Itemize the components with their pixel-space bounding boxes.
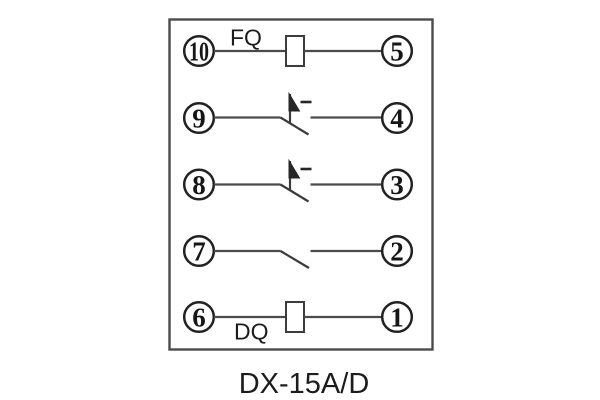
svg-text:3: 3: [390, 170, 404, 200]
wire terminal 7 to contact: [214, 250, 281, 252]
wire coil FQ to terminal 5: [304, 50, 382, 52]
terminal 7: [184, 236, 214, 266]
wire terminal 6 to coil DQ: [214, 316, 286, 318]
minus mark K2: [301, 168, 312, 171]
wire terminal 8 to contact: [214, 183, 281, 185]
svg-text:6: 6: [192, 303, 206, 333]
wire contact to terminal 4: [311, 116, 383, 118]
flag triangle K2: [289, 161, 300, 179]
contact blade K3: [281, 251, 310, 268]
wire contact to terminal 3: [311, 183, 383, 185]
wire terminal10 to coil FQ: [214, 50, 286, 52]
contact blade K1: [281, 118, 309, 135]
terminal 5: [382, 36, 412, 66]
svg-text:10: 10: [189, 37, 209, 67]
svg-text:9: 9: [192, 104, 206, 134]
enclosure box: [170, 20, 433, 350]
terminal 2: [382, 236, 412, 266]
wire contact to terminal 2: [311, 250, 383, 252]
contact blade K2: [281, 185, 309, 202]
flag stem K2: [289, 161, 291, 190]
svg-text:2: 2: [390, 237, 404, 267]
svg-text:1: 1: [390, 303, 404, 333]
svg-text:DQ: DQ: [234, 319, 269, 345]
terminal 10: [184, 36, 214, 66]
svg-text:DX-15A/D: DX-15A/D: [239, 368, 370, 400]
svg-text:FQ: FQ: [230, 25, 262, 51]
terminal 3: [382, 170, 412, 200]
wire terminal 9 to contact: [214, 116, 281, 118]
terminal 8: [184, 170, 214, 200]
coil FQ: [286, 36, 304, 66]
wire coil DQ to terminal 1: [304, 316, 382, 318]
terminal 4: [382, 103, 412, 133]
svg-text:4: 4: [390, 104, 404, 134]
flag stem K1: [289, 94, 291, 123]
coil DQ: [286, 302, 304, 332]
svg-text:8: 8: [192, 170, 206, 200]
flag triangle K1: [289, 94, 300, 112]
terminal 9: [184, 103, 214, 133]
svg-text:7: 7: [192, 237, 206, 267]
minus mark K1: [301, 101, 312, 104]
terminal 1: [382, 302, 412, 332]
terminal 6: [184, 302, 214, 332]
svg-text:5: 5: [390, 37, 404, 67]
